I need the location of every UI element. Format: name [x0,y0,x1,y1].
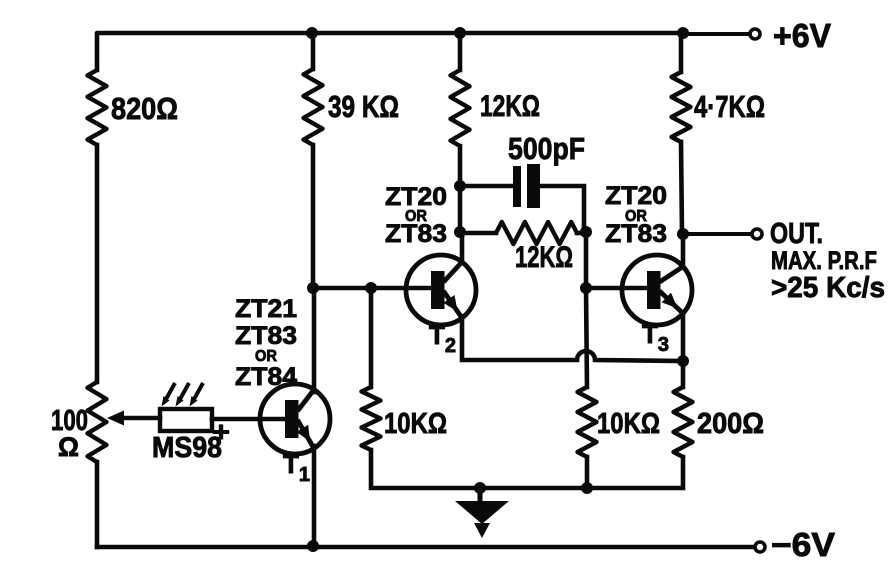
svg-text:ZT21: ZT21 [235,295,297,323]
resistor 12K vertical zigzag [451,70,470,146]
wire bottom -6V rail [97,545,760,550]
transistor T3 [622,255,692,325]
svg-text:12KΩ: 12KΩ [515,241,573,274]
wire T3 emitter vertical [681,313,686,361]
wire pot wiper to MS98 [120,416,160,421]
svg-text:500pF: 500pF [508,131,585,166]
svg-text:200Ω: 200Ω [697,408,764,440]
capacitor 500pF plates [513,164,540,208]
wire MS98 to T1 base [212,417,288,422]
wire OUT terminal lead [683,232,751,236]
resistor 820R zigzag [88,70,107,145]
wire 12K to cap node and feedback node [458,146,463,232]
potentiometer 100R zigzag [88,382,107,462]
wire 10K left upper lead [369,288,374,387]
wire 200R top lead [681,361,686,387]
svg-text:MAX. P.R.F: MAX. P.R.F [771,247,877,275]
ground symbol [455,488,509,538]
svg-text:−6V: −6V [771,526,835,562]
wire 12K top connection [458,33,463,70]
wire 12K feedback right lead [577,231,586,236]
svg-text:ZT84: ZT84 [235,363,297,391]
photocell light arrows [162,383,204,407]
resistor 10K right zigzag [578,387,597,457]
svg-text:+6V: +6V [773,17,831,54]
svg-text:ZT20: ZT20 [605,182,667,210]
wire ground rail to 200R corner [480,457,683,488]
wire T2 collector vertical [460,232,465,262]
wire 10K left bottom corner [371,450,480,488]
terminal -6V [755,542,765,552]
wire T1 collector vertical [312,288,317,392]
wire 10K right bottom lead [585,457,590,488]
svg-text:ZT20: ZT20 [385,183,447,211]
resistor 4.7K zigzag [672,72,691,142]
wire T3 collector vertical [681,234,686,267]
wire 4.7K top connection [679,33,684,72]
resistor 12K feedback zigzag [496,222,577,244]
svg-text:820Ω: 820Ω [111,91,178,126]
terminal OUT [752,229,762,239]
svg-text:ZT83: ZT83 [235,322,297,350]
wire T2 emitter run with hump over T3 base branch [462,316,683,361]
junction node dots [306,27,689,552]
transistor T1 [260,384,330,454]
svg-text:39 KΩ: 39 KΩ [328,89,399,124]
pot wiper arrowhead [107,411,124,426]
svg-text:>25 Kc/s: >25 Kc/s [771,272,885,304]
wire T2 base line [313,286,434,291]
wire 39K branch lower [311,145,316,288]
svg-text:Ω: Ω [58,432,79,462]
wire 39K top connection [311,33,316,69]
wire left rail lower segment [95,462,100,547]
resistor 39K zigzag [304,69,323,145]
wire 4.7K to OUT node [681,142,682,234]
wire node to T3 base [586,286,650,291]
wire cap branch right corner [540,186,584,232]
transistor T2 [406,255,476,325]
svg-text:10KΩ: 10KΩ [384,408,447,440]
wire T1 emitter vertical to bottom rail [312,446,317,547]
wire top +6V rail [97,33,683,70]
wire 12K feedback left lead [460,231,496,236]
terminal +6V [750,29,760,39]
svg-text:12KΩ: 12KΩ [480,90,540,123]
svg-text:4·7KΩ: 4·7KΩ [694,89,765,124]
svg-text:ZT83: ZT83 [385,220,447,248]
svg-text:ZT83: ZT83 [605,220,667,248]
svg-text:OUT.: OUT. [770,218,823,250]
resistor 10K left zigzag [362,387,381,450]
photocell MS98 box [160,409,212,431]
resistor 200R zigzag [674,387,693,457]
svg-text:10KΩ: 10KΩ [597,408,660,440]
wire T3 base branch vertical [584,232,589,288]
wire cap branch left [460,184,514,189]
wire left rail middle segment [95,145,100,382]
wire 10K right upper lead [586,288,587,387]
svg-text:+: + [212,416,230,447]
wire +6V terminal lead [683,32,749,36]
